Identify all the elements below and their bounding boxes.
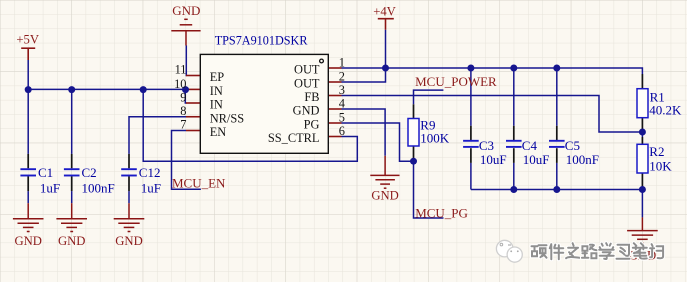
svg-text:SS_CTRL: SS_CTRL: [268, 131, 320, 145]
svg-text:+4V: +4V: [373, 4, 396, 18]
svg-text:MCU_PG: MCU_PG: [415, 206, 468, 221]
svg-text:MCU_POWER: MCU_POWER: [415, 74, 497, 89]
svg-text:GND: GND: [115, 234, 143, 248]
svg-text:9: 9: [180, 90, 186, 104]
svg-text:GND: GND: [172, 3, 200, 18]
svg-text:C4: C4: [522, 138, 538, 153]
svg-text:100nF: 100nF: [566, 152, 599, 167]
svg-text:PG: PG: [304, 118, 320, 132]
svg-text:C2: C2: [82, 165, 97, 180]
svg-text:1uF: 1uF: [40, 180, 60, 195]
svg-text:3: 3: [339, 83, 345, 97]
svg-text:OUT: OUT: [294, 63, 320, 77]
svg-text:OUT: OUT: [294, 77, 320, 91]
svg-text:10K: 10K: [649, 158, 672, 173]
svg-text:4: 4: [339, 97, 345, 111]
svg-text:C3: C3: [479, 138, 494, 153]
svg-text:IN: IN: [210, 98, 223, 112]
svg-text:8: 8: [180, 104, 186, 118]
svg-text:C5: C5: [565, 138, 580, 153]
svg-text:7: 7: [180, 117, 186, 131]
svg-text:C12: C12: [139, 165, 161, 180]
svg-text:11: 11: [175, 63, 187, 77]
svg-text:10: 10: [174, 77, 186, 91]
svg-text:TPS7A9101DSKR: TPS7A9101DSKR: [215, 33, 309, 47]
svg-text:2: 2: [339, 70, 345, 84]
svg-text:1uF: 1uF: [141, 180, 161, 195]
svg-text:GND: GND: [293, 104, 320, 118]
svg-text:1: 1: [339, 56, 345, 70]
svg-text:FB: FB: [304, 90, 319, 104]
svg-text:R2: R2: [649, 144, 664, 159]
svg-text:100K: 100K: [420, 131, 450, 146]
svg-text:5: 5: [339, 111, 345, 125]
svg-text:6: 6: [339, 124, 345, 138]
svg-text:10uF: 10uF: [480, 152, 507, 167]
svg-text:GND: GND: [14, 234, 42, 248]
svg-text:NR/SS: NR/SS: [210, 111, 245, 125]
svg-text:100nF: 100nF: [82, 180, 115, 195]
svg-text:GND: GND: [371, 189, 399, 203]
svg-text:40.2K: 40.2K: [649, 103, 682, 118]
svg-text:IN: IN: [210, 84, 223, 98]
svg-text:10uF: 10uF: [523, 152, 550, 167]
svg-text:C1: C1: [38, 165, 53, 180]
svg-text:EP: EP: [210, 70, 225, 84]
svg-text:EN: EN: [210, 125, 227, 139]
svg-text:GND: GND: [58, 234, 86, 248]
svg-text:+5V: +5V: [16, 33, 39, 47]
svg-text:MCU_EN: MCU_EN: [172, 175, 226, 190]
